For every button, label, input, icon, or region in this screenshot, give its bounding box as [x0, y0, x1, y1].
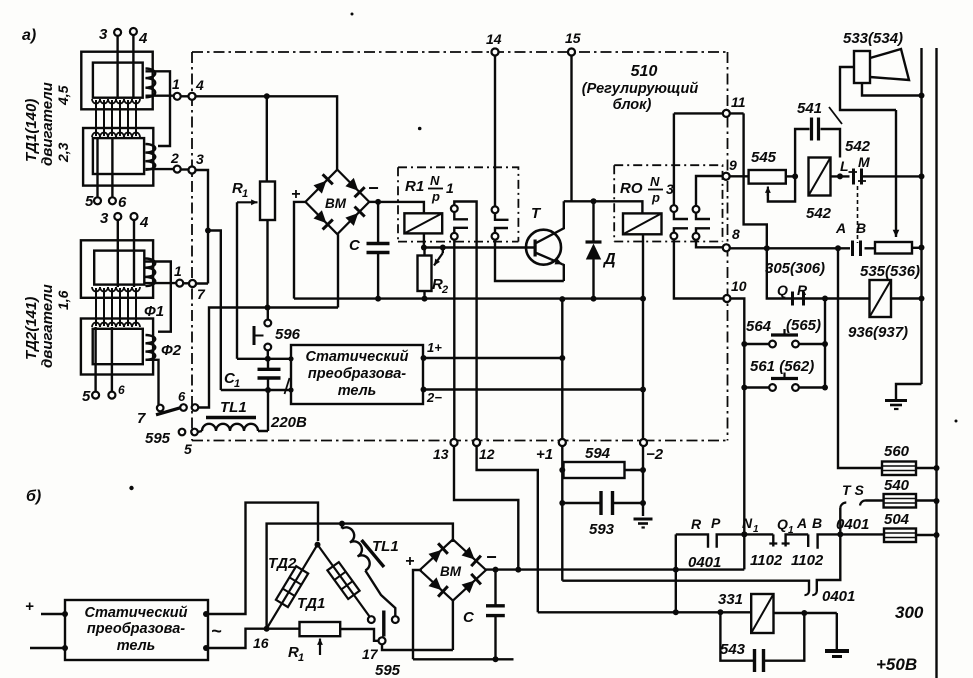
junction node R1 top — [264, 93, 270, 99]
horn 533(534) — [840, 49, 922, 110]
ground (331) — [836, 613, 838, 649]
svg-text:11: 11 — [731, 94, 746, 110]
junction diode top — [591, 198, 597, 204]
capacitor C1 — [258, 368, 281, 371]
svg-text:ТД2(141): ТД2(141) — [23, 297, 40, 360]
fuse 540 — [884, 494, 916, 508]
contact Q-R crossed — [791, 292, 794, 306]
svg-text:4: 4 — [138, 30, 148, 47]
terminal 2 (motor 1) — [174, 166, 181, 173]
fuse 504 — [884, 529, 916, 543]
svg-text:4: 4 — [195, 77, 204, 93]
bridge plus wire down — [413, 570, 422, 659]
boundary terminal 12 — [473, 439, 480, 446]
terminal 4 (motor 2) — [131, 213, 138, 220]
wire relay 331 feed (y612) — [538, 611, 751, 613]
boundary terminal 15 — [568, 49, 575, 56]
relay RO N/P3 dash box — [614, 165, 722, 241]
svg-text:1: 1 — [298, 652, 304, 664]
wire terminal 4 to bridge top — [196, 96, 337, 169]
resistor R1 (regulator) — [260, 182, 275, 221]
svg-text:540: 540 — [884, 477, 910, 494]
svg-text:ТД2: ТД2 — [268, 555, 297, 572]
knife switch 7 blade — [156, 408, 180, 415]
boundary terminal 13 — [451, 439, 458, 446]
terminal 6 pair (boundary) — [180, 404, 187, 411]
svg-text:В: В — [812, 515, 822, 531]
svg-text:б): б) — [26, 488, 41, 505]
R1 contact pair 2 — [492, 206, 499, 213]
svg-text:4,5: 4,5 — [55, 85, 71, 106]
pushbutton 596 — [267, 308, 269, 320]
svg-text:9: 9 — [729, 157, 737, 173]
junction R1 bottom on rail — [265, 305, 271, 311]
wire C1 bottom line — [221, 389, 291, 391]
svg-text:535(536): 535(536) — [860, 263, 920, 280]
terminal 1 (motor 2) — [176, 280, 183, 287]
svg-text:Ф1: Ф1 — [144, 303, 164, 320]
bottom plus rail — [413, 658, 514, 660]
knife switch 595 (b) — [379, 637, 386, 644]
relay 542 — [809, 158, 831, 196]
emitter rail — [294, 297, 643, 299]
svg-text:Ф2: Ф2 — [161, 342, 182, 359]
bridge minus node — [369, 201, 378, 203]
svg-text:L: L — [840, 158, 849, 174]
RO contact pair 1 — [671, 205, 678, 212]
static converter box (block a) — [291, 345, 423, 404]
svg-text:543: 543 — [720, 641, 746, 658]
inductor TL1 (b) — [339, 521, 345, 527]
svg-text:А: А — [796, 515, 807, 531]
svg-text:1102: 1102 — [750, 552, 783, 569]
resistor R1 (b) — [267, 628, 300, 630]
wire terminal 3 to node — [196, 170, 209, 284]
svg-text:564: 564 — [746, 318, 772, 335]
svg-text:13: 13 — [433, 446, 449, 462]
svg-text:1: 1 — [242, 188, 248, 200]
switch T S — [839, 508, 841, 534]
ink specks — [129, 486, 133, 490]
wire 1 to boundary 7 — [183, 282, 189, 284]
svg-text:R: R — [691, 516, 702, 532]
svg-text:двигатели: двигатели — [39, 284, 56, 368]
svg-text:533(534): 533(534) — [843, 30, 903, 47]
junction QR node — [822, 296, 828, 302]
svg-text:N: N — [742, 515, 753, 531]
svg-text:N: N — [650, 174, 660, 189]
svg-text:17: 17 — [362, 646, 379, 662]
svg-text:6: 6 — [178, 389, 186, 404]
svg-text:7: 7 — [197, 286, 206, 302]
svg-text:595: 595 — [145, 430, 171, 447]
wire terminal 3 down (motor2) — [117, 220, 119, 287]
svg-text:Д: Д — [602, 251, 616, 268]
545 wiper tap — [768, 176, 795, 201]
svg-text:Статический: Статический — [84, 605, 187, 621]
terminal 5 (motor 2) — [94, 327, 96, 392]
svg-text:561 (562): 561 (562) — [750, 358, 814, 375]
boundary terminal 14 — [492, 49, 499, 56]
svg-text:595: 595 — [375, 662, 401, 678]
output top wire to apex — [203, 611, 209, 617]
right bus 1 — [920, 48, 922, 384]
bridge rectifier VM block b — [420, 539, 486, 600]
svg-text:+50В: +50В — [876, 655, 917, 674]
svg-text:594: 594 — [585, 445, 611, 462]
terminal 4 (motor 1) — [130, 28, 137, 35]
wire down to R1 — [266, 96, 268, 181]
boundary terminal 3 — [189, 167, 196, 174]
svg-text:ТД1: ТД1 — [297, 595, 325, 612]
terminal 595/5 pair — [179, 429, 186, 436]
relay 331 — [751, 594, 773, 633]
wire contact row to 331 line — [675, 534, 677, 612]
svg-text:504: 504 — [884, 511, 910, 528]
svg-text:тель: тель — [117, 638, 156, 654]
svg-text:16: 16 — [253, 635, 269, 651]
ground (right bus) — [896, 384, 922, 399]
svg-text:Р: Р — [711, 515, 721, 531]
svg-text:преобразова-: преобразова- — [308, 366, 406, 382]
wire terminal 8 line — [730, 247, 875, 249]
stub 0401 — [817, 534, 841, 591]
relay RO coil box — [623, 213, 662, 234]
wire terminal 10 down — [730, 299, 744, 570]
pushbutton 564(565) — [744, 343, 769, 345]
svg-text:1102: 1102 — [791, 552, 824, 569]
wire node to C1 bottom — [208, 231, 221, 391]
boundary terminal 9 — [723, 173, 730, 180]
wire node16 to bridge top — [267, 524, 453, 629]
svg-text:596: 596 — [275, 326, 301, 343]
capacitor C (b) — [486, 604, 505, 607]
R2 wiper arrow — [442, 248, 444, 254]
wire +1 vertical — [561, 299, 563, 581]
svg-text:15: 15 — [565, 30, 581, 46]
svg-text:(Регулирующий: (Регулирующий — [582, 81, 699, 97]
terminal 6 (motor 1) — [111, 137, 113, 197]
svg-text:С: С — [349, 237, 361, 254]
input - wire — [30, 647, 65, 649]
svg-text:N: N — [430, 173, 440, 188]
svg-text:ТД1(140): ТД1(140) — [23, 99, 40, 162]
pushbutton 561(562) — [744, 386, 769, 388]
svg-text:2: 2 — [441, 284, 448, 296]
wire minus node long (y569) — [486, 568, 744, 570]
resistor R2 — [418, 256, 432, 292]
diode D — [586, 201, 602, 298]
svg-text:Т S: Т S — [842, 482, 864, 498]
svg-text:542: 542 — [845, 138, 871, 155]
ground (593) — [634, 518, 653, 521]
svg-text:0401: 0401 — [822, 588, 855, 605]
wire 2 to boundary 3 — [181, 168, 188, 170]
svg-text:+: + — [291, 186, 300, 203]
capacitor 543 — [720, 613, 753, 661]
svg-text:−: − — [368, 178, 379, 198]
resistor 594 — [564, 462, 625, 478]
wire contact2 to emitter — [495, 240, 564, 281]
output bottom wire to node 16 — [203, 645, 209, 651]
collector line to relay RO — [564, 201, 643, 213]
terminal 1 (motor 1) — [174, 93, 181, 100]
wire +1 long (y581) — [562, 581, 809, 592]
svg-text:Статический: Статический — [305, 349, 408, 365]
relay R1 N/P1 dash box — [398, 167, 518, 241]
svg-text:300: 300 — [895, 603, 924, 622]
relay RO bottom lead to -2 — [642, 234, 644, 439]
svg-text:а): а) — [22, 27, 36, 44]
wire terminal 9 to contact2 — [696, 176, 723, 206]
svg-text:541: 541 — [797, 100, 822, 117]
svg-text:(565): (565) — [786, 317, 821, 334]
svg-text:В: В — [856, 220, 866, 236]
svg-text:1: 1 — [446, 180, 454, 196]
svg-text:10: 10 — [731, 278, 747, 294]
svg-text:12: 12 — [479, 446, 495, 462]
capacitor 541 — [795, 129, 809, 176]
svg-text:С: С — [463, 609, 475, 626]
wire terminal 13 external — [454, 446, 518, 570]
svg-text:R1: R1 — [405, 178, 424, 195]
R1 wiper tail wire — [236, 202, 238, 358]
svg-text:1,6: 1,6 — [55, 290, 71, 310]
svg-text:545: 545 — [751, 149, 777, 166]
svg-text:2: 2 — [170, 150, 179, 166]
boundary terminal 11 — [723, 110, 730, 117]
svg-text:тель: тель — [338, 383, 377, 399]
relay R1 coil box — [404, 213, 442, 233]
resistor 535(536) — [875, 242, 912, 254]
svg-text:4: 4 — [139, 214, 149, 231]
converter output 1+ wire — [421, 355, 427, 361]
svg-text:2−: 2− — [426, 390, 442, 405]
svg-text:+1: +1 — [536, 446, 553, 463]
svg-text:блок): блок) — [613, 97, 652, 113]
svg-text:1: 1 — [172, 76, 180, 92]
inductor TL1 — [258, 390, 268, 431]
svg-text:331: 331 — [718, 591, 743, 608]
converter output 2- wire — [421, 387, 427, 393]
contact N1-Q1 — [772, 534, 774, 546]
svg-text:двигатели: двигатели — [39, 82, 56, 166]
apex node — [315, 542, 321, 548]
wire terminal 9 to resistor 545 — [730, 175, 749, 177]
mechanical link 542 contacts — [857, 186, 859, 243]
svg-text:6: 6 — [118, 194, 127, 211]
svg-text:3: 3 — [100, 210, 109, 227]
fuse 560 — [882, 462, 916, 476]
svg-text:р: р — [651, 190, 660, 205]
svg-text:8: 8 — [732, 226, 740, 242]
wire 8 node down to fuse 560 — [838, 248, 882, 468]
capacitor C (block a) — [377, 202, 379, 299]
motor unit TD2(141) — [81, 240, 176, 374]
svg-text:6: 6 — [118, 383, 125, 397]
wire RO contact1 to terminal 10 — [674, 239, 724, 298]
svg-text:−2: −2 — [646, 446, 664, 463]
svg-text:305(306): 305(306) — [765, 260, 825, 277]
svg-text:1: 1 — [788, 525, 794, 536]
svg-text:542: 542 — [806, 205, 832, 222]
terminal 3 (motor 1) — [114, 29, 121, 36]
svg-text:0401: 0401 — [688, 554, 721, 571]
rail to bridge plus — [294, 202, 305, 299]
wire minus to relay R1 coil — [378, 202, 424, 213]
R1 wiper arrow — [237, 201, 258, 203]
contact A-B (row) — [807, 534, 809, 547]
armature winding loops motor 2 — [92, 287, 140, 327]
svg-text:5: 5 — [184, 441, 192, 457]
svg-text:1+: 1+ — [427, 340, 442, 355]
junction +1 drop — [559, 296, 565, 302]
bridge bottom lead — [337, 234, 339, 307]
motor unit TD1(140) — [81, 52, 173, 186]
wire terminal 12 external — [477, 446, 538, 612]
svg-text:593: 593 — [589, 521, 615, 538]
junction node terminals 3-7 — [205, 228, 211, 234]
R1 bottom lead — [266, 220, 268, 308]
contact A-B — [851, 241, 854, 257]
svg-text:3: 3 — [196, 151, 204, 167]
knife switch 7 pivot — [157, 405, 164, 412]
boundary terminal +1 — [559, 439, 566, 446]
terminal 6 small (motor 2) — [111, 327, 113, 392]
svg-text:+: + — [405, 553, 414, 570]
boundary terminal -2 — [640, 439, 647, 446]
armature winding loops motor 1 — [92, 99, 140, 137]
wire F2 to knife switch — [146, 360, 159, 405]
svg-text:RO: RO — [620, 180, 643, 197]
svg-text:5: 5 — [85, 193, 94, 210]
wire QR node down to buttons — [824, 299, 826, 388]
svg-text:р: р — [431, 189, 440, 204]
wire contact1 to terminal 12 — [454, 202, 476, 440]
relay 936(937) — [870, 280, 892, 317]
wire terminal 4 down (motor2) — [133, 220, 135, 287]
svg-text:R: R — [797, 282, 808, 298]
svg-text:1: 1 — [234, 378, 240, 390]
svg-text:220В: 220В — [270, 414, 307, 431]
RO contact pair 2 — [693, 206, 700, 213]
svg-text:ВМ: ВМ — [325, 196, 347, 211]
R1 contact pair 1 — [451, 205, 458, 212]
contact R-P — [676, 534, 708, 547]
transistor T — [526, 201, 564, 281]
wire terminal 4 down — [132, 35, 134, 99]
svg-text:TL1: TL1 — [372, 538, 399, 555]
terminal 5 (motor 1) — [96, 137, 98, 197]
input + wire — [41, 613, 65, 615]
svg-text:5: 5 — [82, 388, 91, 405]
svg-text:~: ~ — [211, 621, 222, 641]
svg-text:2,3: 2,3 — [55, 142, 71, 163]
resistor 545 — [749, 170, 786, 184]
wire contact1 to terminal 13 — [453, 240, 455, 439]
wire 1 to boundary 4 — [181, 95, 188, 97]
svg-text:преобразова-: преобразова- — [87, 621, 185, 637]
boundary terminal 8 — [723, 244, 730, 251]
svg-text:ВМ: ВМ — [440, 564, 462, 579]
wire terminal 11 to contact — [674, 113, 744, 205]
wire 595 to bridge bottom — [382, 599, 453, 650]
svg-text:936(937): 936(937) — [848, 324, 908, 341]
boundary terminal circles overlay — [189, 49, 731, 447]
bridge rectifier VM block a — [305, 170, 369, 235]
svg-text:Q: Q — [777, 282, 788, 298]
svg-text:−: − — [486, 547, 497, 567]
svg-text:Q: Q — [777, 516, 788, 532]
wire terminal 15 down — [570, 56, 572, 202]
svg-text:14: 14 — [486, 31, 502, 47]
svg-text:+: + — [25, 598, 34, 615]
boundary terminal 4 — [189, 93, 196, 100]
node 16 — [264, 626, 270, 632]
static converter box (block b) — [65, 600, 208, 660]
right bus 2 — [935, 48, 937, 678]
wire -2 vertical below — [642, 439, 644, 516]
block 510 dash-dot boundary — [192, 52, 728, 441]
contact L-M — [852, 169, 855, 185]
arrow feed to 535 — [895, 110, 897, 237]
svg-text:3: 3 — [99, 26, 108, 43]
svg-text:7: 7 — [137, 410, 146, 427]
svg-text:M: M — [858, 154, 870, 170]
terminal 3 (motor 2) — [114, 213, 121, 220]
svg-text:TL1: TL1 — [220, 399, 247, 416]
wire terminal 3 down — [116, 36, 118, 99]
wire 596 line — [237, 358, 291, 360]
svg-text:1: 1 — [174, 263, 182, 279]
resistor TD1 diagonal — [318, 545, 370, 617]
svg-text:А: А — [835, 220, 846, 236]
resistor TD2 diagonal — [267, 545, 318, 629]
svg-text:560: 560 — [884, 443, 910, 460]
svg-text:510: 510 — [631, 63, 658, 80]
wire terminal 14 to contact2 — [494, 56, 496, 207]
relay R1 bottom lead / base line — [424, 233, 535, 247]
wire RO contact2 to terminal 8 — [696, 240, 723, 248]
boundary terminal 7 — [189, 280, 196, 287]
label 220V with pointer — [285, 378, 290, 394]
svg-text:1: 1 — [753, 524, 759, 535]
wire 8 node to QR contact — [767, 248, 825, 298]
capacitor 593 — [599, 491, 602, 515]
wire 11 leg to 8 line — [744, 113, 767, 248]
boundary terminal 10 — [723, 295, 730, 302]
AC rail wire (bridge bottom) — [198, 308, 338, 408]
